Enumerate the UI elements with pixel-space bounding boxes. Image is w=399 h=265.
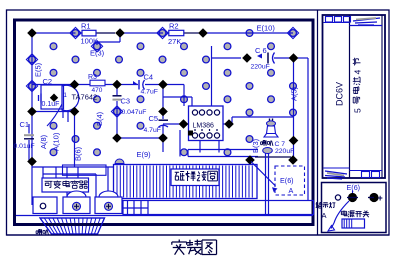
svg-text:A: A: [289, 186, 294, 195]
svg-text:220uF: 220uF: [275, 148, 294, 155]
svg-text:A(10): A(10): [52, 132, 61, 151]
svg-text:220uF: 220uF: [251, 64, 270, 71]
svg-text:C5: C5: [149, 114, 159, 123]
svg-text:C 6: C 6: [255, 46, 267, 55]
svg-text:LM386: LM386: [193, 123, 215, 130]
svg-text:0.1uF: 0.1uF: [42, 101, 60, 108]
svg-text:R2: R2: [169, 21, 179, 30]
svg-text:DC6V: DC6V: [335, 82, 345, 106]
svg-text:4.7uF: 4.7uF: [141, 89, 158, 96]
svg-text:B(4): B(4): [95, 111, 104, 126]
svg-text:B(3): B(3): [251, 138, 260, 153]
svg-text:0.01uF: 0.01uF: [14, 143, 35, 150]
svg-text:E(6): E(6): [347, 183, 361, 192]
svg-text:R3: R3: [88, 74, 97, 81]
svg-text:R1: R1: [81, 22, 91, 31]
svg-text:C3: C3: [121, 97, 131, 106]
svg-text:+: +: [378, 193, 383, 203]
svg-text:4: 4: [353, 69, 363, 74]
svg-text:A(5): A(5): [290, 86, 299, 101]
svg-text:TA7642: TA7642: [72, 93, 98, 102]
svg-text:100K: 100K: [81, 37, 99, 46]
svg-text:E(5): E(5): [34, 62, 43, 77]
svg-text:27K: 27K: [168, 37, 181, 46]
svg-text:E(3): E(3): [90, 49, 105, 58]
svg-text:A(8): A(8): [39, 134, 48, 149]
svg-text:E(10): E(10): [257, 24, 276, 33]
svg-text:C2: C2: [43, 77, 53, 86]
svg-text:B(6): B(6): [74, 146, 83, 161]
svg-text:E(9): E(9): [137, 150, 152, 159]
svg-text:E(6): E(6): [280, 176, 294, 185]
svg-text:C1: C1: [20, 120, 30, 129]
svg-text:C4: C4: [144, 73, 154, 82]
svg-text:4.7uF: 4.7uF: [144, 127, 161, 134]
svg-text:A: A: [322, 211, 327, 220]
svg-text:0.047uF: 0.047uF: [122, 109, 147, 116]
svg-text:5: 5: [353, 108, 363, 113]
